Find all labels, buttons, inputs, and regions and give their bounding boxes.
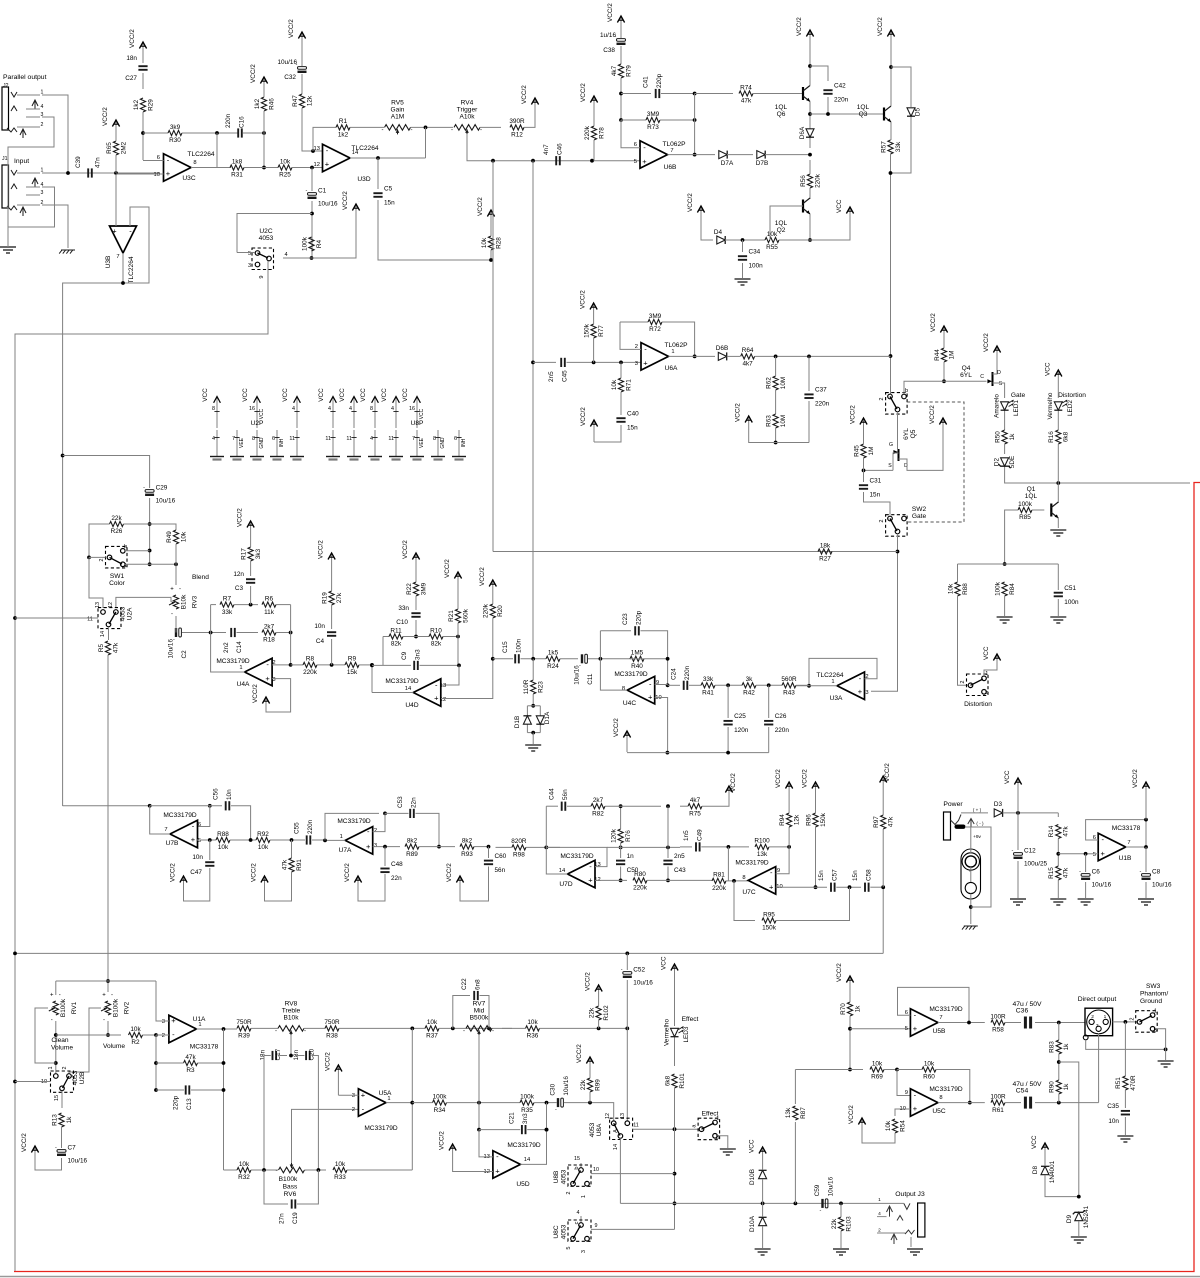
pin U2B 2 bbox=[62, 1067, 68, 1070]
wire switch to ground bbox=[717, 1136, 728, 1148]
svg-text:c: c bbox=[574, 1221, 580, 1224]
pin U4C 10 bbox=[655, 695, 661, 701]
ground pin U2P 4 bbox=[212, 430, 220, 456]
svg-text:R74: R74 bbox=[740, 84, 752, 91]
svg-text:3: 3 bbox=[581, 1250, 587, 1253]
resistor R84 bbox=[994, 581, 1016, 596]
svg-text:U3A: U3A bbox=[830, 695, 843, 702]
label D4 bbox=[714, 229, 723, 236]
capacitor C47 bbox=[205, 862, 214, 866]
wire bbox=[870, 886, 883, 888]
capacitor C46 bbox=[556, 156, 560, 165]
wire J2 sleeve to ground bbox=[8, 117, 54, 246]
svg-text:5DE: 5DE bbox=[1009, 456, 1016, 468]
wire bbox=[957, 564, 959, 582]
wire bbox=[662, 322, 695, 356]
wire bbox=[882, 790, 884, 815]
capacitor C44 bbox=[562, 802, 566, 811]
ground U8P col7 bbox=[452, 457, 466, 460]
wire U7A output bbox=[325, 839, 345, 841]
wire bbox=[727, 355, 740, 357]
svg-text:1N5241: 1N5241 bbox=[1083, 1205, 1090, 1228]
svg-text:6k8: 6k8 bbox=[1063, 431, 1070, 442]
junction bbox=[531, 731, 535, 735]
svg-text:C12: C12 bbox=[1024, 848, 1036, 855]
svg-text:12k: 12k bbox=[794, 814, 801, 825]
svg-text:750R: 750R bbox=[236, 1019, 252, 1026]
junction bbox=[383, 812, 387, 816]
junction bbox=[414, 635, 418, 639]
connector Power barrel bbox=[961, 849, 981, 899]
svg-text:MC33179D: MC33179D bbox=[216, 658, 250, 665]
svg-text:C19: C19 bbox=[292, 1212, 299, 1224]
svg-text:R89: R89 bbox=[406, 851, 418, 858]
text J2 bbox=[3, 83, 9, 89]
junction bbox=[666, 879, 670, 883]
label RV6 bbox=[279, 1176, 298, 1198]
junction bbox=[544, 846, 548, 850]
op-amp U4D bbox=[385, 678, 440, 709]
svg-text:10: 10 bbox=[154, 172, 160, 178]
svg-text:22k: 22k bbox=[111, 515, 122, 522]
wire long column bbox=[532, 161, 534, 659]
svg-text:TLC2264: TLC2264 bbox=[187, 151, 214, 158]
transistor Q2 bbox=[803, 198, 810, 214]
label U8P bbox=[411, 420, 424, 427]
svg-text:1k2: 1k2 bbox=[254, 98, 261, 109]
svg-text:R101: R101 bbox=[679, 1073, 686, 1089]
junction bbox=[1003, 562, 1007, 566]
wire bbox=[209, 840, 211, 860]
svg-text:Mid: Mid bbox=[474, 1007, 485, 1014]
svg-text:S: S bbox=[999, 381, 1003, 387]
wire bbox=[1017, 813, 1019, 850]
svg-text:3: 3 bbox=[1096, 1023, 1099, 1029]
junction bbox=[826, 112, 830, 116]
wire bbox=[775, 390, 777, 414]
wire to U5C - bbox=[897, 1070, 910, 1096]
label C23 bbox=[622, 610, 643, 625]
resistor R100 bbox=[754, 838, 770, 858]
wire bbox=[237, 632, 259, 634]
svg-text:10u/16: 10u/16 bbox=[318, 201, 338, 208]
svg-text:R92: R92 bbox=[257, 831, 269, 838]
svg-text:1: 1 bbox=[239, 665, 242, 671]
wire bbox=[620, 362, 622, 378]
resistor R16 bbox=[1048, 430, 1070, 444]
svg-text:10u/16: 10u/16 bbox=[574, 665, 581, 685]
power VCC/2 Q3 bbox=[877, 17, 895, 44]
junction bbox=[289, 663, 293, 667]
wire RV8 wiper bbox=[290, 1035, 292, 1056]
svg-text:11k: 11k bbox=[264, 609, 275, 616]
ground J2 bbox=[0, 247, 16, 253]
label C16 bbox=[225, 113, 246, 128]
svg-text:220k: 220k bbox=[633, 885, 648, 892]
label D5 bbox=[915, 107, 922, 116]
transistor Q6 bbox=[775, 86, 810, 119]
svg-text:-: - bbox=[275, 1028, 277, 1034]
wire Q6 emitter / D6A bbox=[809, 102, 811, 149]
wire bbox=[1005, 1022, 1021, 1024]
svg-text:R12: R12 bbox=[511, 132, 523, 139]
svg-text:RV8: RV8 bbox=[285, 1000, 298, 1007]
svg-text:5: 5 bbox=[1093, 852, 1096, 858]
junction bbox=[531, 361, 535, 365]
junction bbox=[424, 126, 428, 130]
ground C8 bbox=[1138, 899, 1154, 905]
wire bbox=[727, 685, 729, 718]
svg-text:9: 9 bbox=[777, 868, 780, 874]
capacitor C21 bbox=[522, 1125, 526, 1134]
junction bbox=[862, 469, 866, 473]
wire bbox=[331, 605, 333, 629]
op-amp U7B bbox=[163, 812, 197, 848]
svg-text:1QL: 1QL bbox=[1025, 493, 1038, 500]
ground D1 bbox=[525, 745, 541, 751]
capacitor C23 bbox=[635, 626, 639, 635]
junction bbox=[848, 885, 852, 889]
junction bbox=[437, 845, 441, 849]
ground pin U2P 6 bbox=[272, 430, 285, 456]
wire bbox=[1078, 1221, 1080, 1236]
wire bbox=[524, 112, 535, 127]
wire Q6 collector bbox=[809, 44, 811, 86]
wire bbox=[593, 140, 595, 161]
power VCC/2 U1B bbox=[1132, 769, 1150, 800]
svg-text:3: 3 bbox=[352, 1093, 355, 1099]
svg-text:MC33179D: MC33179D bbox=[929, 1086, 963, 1093]
wire SW1 pin2 bbox=[89, 556, 106, 558]
wire U2A pin11 from trunk bbox=[15, 617, 98, 619]
wire bbox=[796, 684, 809, 686]
svg-text:7: 7 bbox=[116, 254, 119, 260]
svg-text:VCC/2: VCC/2 bbox=[250, 64, 257, 83]
svg-text:R31: R31 bbox=[231, 172, 243, 179]
svg-text:220k: 220k bbox=[814, 173, 821, 188]
wire bbox=[457, 586, 459, 609]
wire U4A + to VCC/2 bbox=[266, 679, 291, 712]
svg-text:-: - bbox=[143, 485, 145, 491]
wire bbox=[347, 1169, 412, 1171]
wire SW2 to U3A bbox=[871, 534, 898, 692]
svg-text:C37: C37 bbox=[815, 387, 827, 394]
switch U2B bbox=[41, 1071, 74, 1101]
svg-text:-: - bbox=[305, 1168, 307, 1174]
svg-text:3k3: 3k3 bbox=[255, 548, 262, 559]
wire bbox=[769, 846, 789, 848]
svg-text:R42: R42 bbox=[743, 690, 755, 697]
svg-text:R77: R77 bbox=[598, 325, 605, 337]
svg-text:R44: R44 bbox=[934, 349, 941, 361]
svg-text:U3D: U3D bbox=[357, 176, 370, 183]
svg-text:C7: C7 bbox=[68, 1145, 77, 1152]
ground D10A bbox=[755, 1249, 771, 1255]
svg-text:R83: R83 bbox=[1049, 1041, 1056, 1053]
svg-text:b: b bbox=[905, 388, 908, 394]
wire bbox=[490, 250, 492, 260]
junction bbox=[545, 1128, 549, 1132]
svg-text:+: + bbox=[858, 687, 863, 696]
wire bbox=[474, 846, 489, 848]
svg-text:Volume: Volume bbox=[51, 1045, 73, 1052]
svg-text:C14: C14 bbox=[236, 641, 243, 653]
capacitor C59 bbox=[814, 1176, 834, 1213]
junction bbox=[666, 683, 670, 687]
svg-text:Gate: Gate bbox=[912, 513, 927, 520]
op-amp U5A bbox=[358, 1089, 398, 1132]
power VCC/2 R17 bbox=[237, 508, 255, 535]
svg-text:1k5: 1k5 bbox=[548, 650, 559, 657]
svg-text:220k: 220k bbox=[483, 603, 490, 618]
svg-text:Effect: Effect bbox=[682, 1016, 699, 1023]
junction bbox=[290, 838, 294, 842]
wire to U7C - bbox=[776, 847, 789, 874]
switch U2A bbox=[87, 608, 121, 638]
capacitor C58 bbox=[865, 883, 869, 892]
svg-text:2: 2 bbox=[1130, 1017, 1136, 1020]
svg-text:R95: R95 bbox=[763, 911, 775, 918]
wire bbox=[632, 879, 634, 881]
label Gate bbox=[1011, 392, 1026, 399]
svg-text:4053: 4053 bbox=[560, 1169, 567, 1184]
svg-text:INH: INH bbox=[461, 438, 467, 447]
wire RV2 wiper to U2B pin2 bbox=[69, 1008, 101, 1074]
svg-text:2k7: 2k7 bbox=[593, 797, 604, 804]
svg-text:D8: D8 bbox=[1032, 1165, 1039, 1174]
label C32 bbox=[277, 59, 297, 81]
wire bbox=[1017, 792, 1019, 813]
junction bbox=[154, 1033, 158, 1037]
junction bbox=[666, 846, 670, 850]
svg-text:+: + bbox=[588, 876, 593, 885]
wire shell bus bbox=[1086, 1040, 1166, 1050]
svg-text:R27: R27 bbox=[819, 556, 831, 563]
svg-text:22n: 22n bbox=[391, 875, 402, 882]
svg-text:MC33178: MC33178 bbox=[1112, 825, 1141, 832]
ground pin U2P 7 bbox=[232, 430, 245, 456]
power pin U8P 16 bbox=[402, 388, 425, 428]
svg-text:8k2: 8k2 bbox=[462, 837, 473, 844]
potentiometer RV4 bbox=[451, 99, 482, 134]
ground pin U2P 8 bbox=[252, 430, 265, 456]
pin U3A 2 bbox=[865, 674, 868, 680]
resistor R76 bbox=[610, 828, 632, 843]
svg-text:11: 11 bbox=[325, 436, 331, 442]
wire bbox=[849, 1016, 851, 1070]
wire R60 to U5C out bbox=[936, 1070, 970, 1103]
wire bbox=[56, 1034, 121, 1036]
svg-text:R5: R5 bbox=[98, 643, 105, 652]
svg-text:S: S bbox=[888, 463, 892, 469]
svg-text:4: 4 bbox=[878, 1211, 881, 1217]
pin U8B 15 bbox=[574, 1156, 580, 1162]
junction bbox=[808, 238, 812, 242]
svg-text:RV2: RV2 bbox=[123, 1001, 130, 1014]
svg-text:47k: 47k bbox=[281, 859, 288, 870]
op-amp U6B bbox=[640, 141, 686, 171]
ground R15 bbox=[1050, 899, 1066, 905]
svg-text:MC33179D: MC33179D bbox=[929, 1006, 963, 1013]
resistor R37 bbox=[425, 1019, 439, 1039]
junction bbox=[881, 885, 885, 889]
junction bbox=[808, 112, 812, 116]
svg-text:U1B: U1B bbox=[1119, 855, 1132, 862]
switch SW3 Phantom-Ground bbox=[1130, 1009, 1158, 1034]
potentiometer RV7 bbox=[463, 1000, 494, 1035]
wire C60 to VCC/2 bbox=[460, 867, 489, 902]
svg-text:100n: 100n bbox=[749, 263, 764, 270]
svg-text:R75: R75 bbox=[689, 810, 701, 817]
wire bbox=[1044, 1157, 1046, 1165]
power VCC/2 R46 bbox=[250, 64, 268, 91]
svg-text:VCC: VCC bbox=[1031, 1135, 1038, 1149]
svg-text:D7A: D7A bbox=[721, 160, 734, 167]
wire bbox=[317, 664, 345, 666]
svg-text:C60: C60 bbox=[495, 853, 507, 860]
junction bbox=[741, 238, 745, 242]
resistor R79 bbox=[611, 64, 633, 78]
svg-text:10n: 10n bbox=[226, 789, 233, 800]
wire U4A output loop bbox=[211, 605, 245, 672]
label C49 bbox=[683, 829, 704, 841]
svg-text:Vermelho: Vermelho bbox=[663, 1019, 670, 1046]
resistor R55 bbox=[765, 231, 779, 251]
switch gate switch A bbox=[879, 388, 908, 414]
wire bbox=[943, 340, 945, 348]
junction bbox=[693, 92, 697, 96]
svg-text:14: 14 bbox=[524, 1157, 531, 1163]
svg-text:-: - bbox=[411, 127, 413, 133]
resistor R39 bbox=[236, 1019, 252, 1039]
svg-text:R100: R100 bbox=[754, 838, 770, 845]
svg-text:C44: C44 bbox=[549, 788, 556, 800]
svg-text:VCC/2: VCC/2 bbox=[580, 83, 587, 102]
svg-text:VCC/2: VCC/2 bbox=[252, 684, 259, 703]
power VCC/2 R75 bbox=[725, 773, 737, 800]
switch SW1 Color bbox=[99, 544, 127, 587]
svg-text:1k2: 1k2 bbox=[338, 132, 349, 139]
junction bbox=[106, 1033, 110, 1037]
svg-text:R6: R6 bbox=[265, 595, 274, 602]
label C38 bbox=[600, 32, 616, 54]
label C58 bbox=[852, 869, 873, 881]
wire bbox=[1124, 1090, 1126, 1108]
power VCC/2 R63 bbox=[735, 403, 753, 443]
junction bbox=[289, 631, 293, 635]
wire output bus bbox=[620, 1202, 877, 1204]
junction bbox=[531, 159, 535, 163]
svg-text:4k7: 4k7 bbox=[690, 797, 701, 804]
wire to D9 column bbox=[1059, 1062, 1079, 1197]
junction bbox=[969, 905, 973, 909]
svg-text:R2: R2 bbox=[131, 1039, 140, 1046]
wire long VCC/2 bus bbox=[15, 952, 883, 954]
svg-text:MC33179D: MC33179D bbox=[735, 860, 769, 867]
svg-text:C31: C31 bbox=[870, 478, 882, 485]
svg-text:B10k: B10k bbox=[180, 594, 187, 609]
wire bbox=[727, 154, 753, 156]
wire volume top line bbox=[56, 980, 156, 982]
svg-text:VCC/2: VCC/2 bbox=[344, 863, 351, 882]
resistor R11 bbox=[389, 627, 403, 647]
svg-text:VCC: VCC bbox=[402, 388, 409, 402]
label Direct output bbox=[1078, 996, 1117, 1003]
label D3 bbox=[994, 801, 1003, 808]
junction bbox=[590, 159, 594, 163]
power VCC/2 R91 bbox=[251, 863, 269, 890]
svg-text:C10: C10 bbox=[396, 619, 408, 626]
svg-text:R51: R51 bbox=[1115, 1077, 1122, 1089]
wire R97 column to bus bbox=[882, 887, 884, 953]
power VCC/2 C7 bbox=[21, 1133, 39, 1160]
svg-text:150k: 150k bbox=[583, 323, 590, 338]
svg-text:220k: 220k bbox=[712, 885, 727, 892]
svg-text:3n3: 3n3 bbox=[415, 649, 422, 660]
svg-text:10k: 10k bbox=[924, 1060, 935, 1067]
svg-text:1u/16: 1u/16 bbox=[600, 32, 616, 39]
label C47 bbox=[190, 854, 203, 876]
capacitor C24 bbox=[684, 681, 688, 690]
svg-text:VCC/2: VCC/2 bbox=[730, 773, 737, 792]
ground effect switch bbox=[720, 1149, 736, 1155]
svg-text:J1: J1 bbox=[2, 156, 8, 162]
svg-text:R91: R91 bbox=[296, 859, 303, 871]
svg-text:C26: C26 bbox=[775, 713, 787, 720]
power VCC/2 C47 bbox=[170, 863, 188, 890]
power VCC LED3 bbox=[661, 956, 679, 978]
svg-text:820R: 820R bbox=[511, 838, 527, 845]
power pin U2P 8 bbox=[202, 388, 220, 428]
junction bbox=[1144, 845, 1148, 849]
wire to U4D - bbox=[441, 665, 459, 685]
svg-text:VCC/2: VCC/2 bbox=[477, 197, 484, 216]
capacitor C6 bbox=[1079, 869, 1111, 889]
power VCC/2 R20 bbox=[479, 567, 497, 594]
svg-text:3k: 3k bbox=[746, 676, 754, 683]
wire Q1 emitter bbox=[1057, 517, 1059, 528]
wire J1 pin4 to ground bbox=[8, 187, 55, 247]
wire U2B pin15 down bbox=[61, 1091, 63, 1108]
wire bbox=[532, 733, 534, 744]
junction bbox=[451, 1027, 455, 1031]
capacitor C15 bbox=[515, 654, 519, 663]
wire U5C + bbox=[895, 1109, 910, 1116]
wire RV1 bottom to U2B pin1 bbox=[55, 1021, 57, 1073]
junction bbox=[693, 153, 697, 157]
capacitor C36 bbox=[1012, 1001, 1042, 1029]
svg-text:220n: 220n bbox=[775, 727, 790, 734]
svg-text:3: 3 bbox=[272, 677, 275, 683]
svg-text:R4: R4 bbox=[316, 239, 323, 248]
wire bbox=[680, 846, 692, 848]
svg-text:1: 1 bbox=[1104, 1014, 1107, 1020]
svg-text:9: 9 bbox=[905, 1090, 908, 1096]
svg-text:VCC: VCC bbox=[360, 388, 367, 402]
power VCC D8 bbox=[1031, 1135, 1049, 1157]
ground J3 bbox=[907, 1249, 923, 1255]
svg-text:2: 2 bbox=[879, 519, 885, 522]
junction bbox=[61, 454, 65, 458]
pin U3A 3 bbox=[865, 690, 868, 696]
wire C5 to R28 bbox=[378, 200, 491, 260]
svg-text:10n: 10n bbox=[192, 854, 203, 861]
svg-text:C6: C6 bbox=[1092, 869, 1101, 876]
svg-text:U3B: U3B bbox=[105, 255, 112, 268]
resistor R83 bbox=[1049, 1040, 1071, 1054]
ground C51 bbox=[1050, 617, 1066, 623]
svg-text:C1: C1 bbox=[318, 188, 327, 195]
